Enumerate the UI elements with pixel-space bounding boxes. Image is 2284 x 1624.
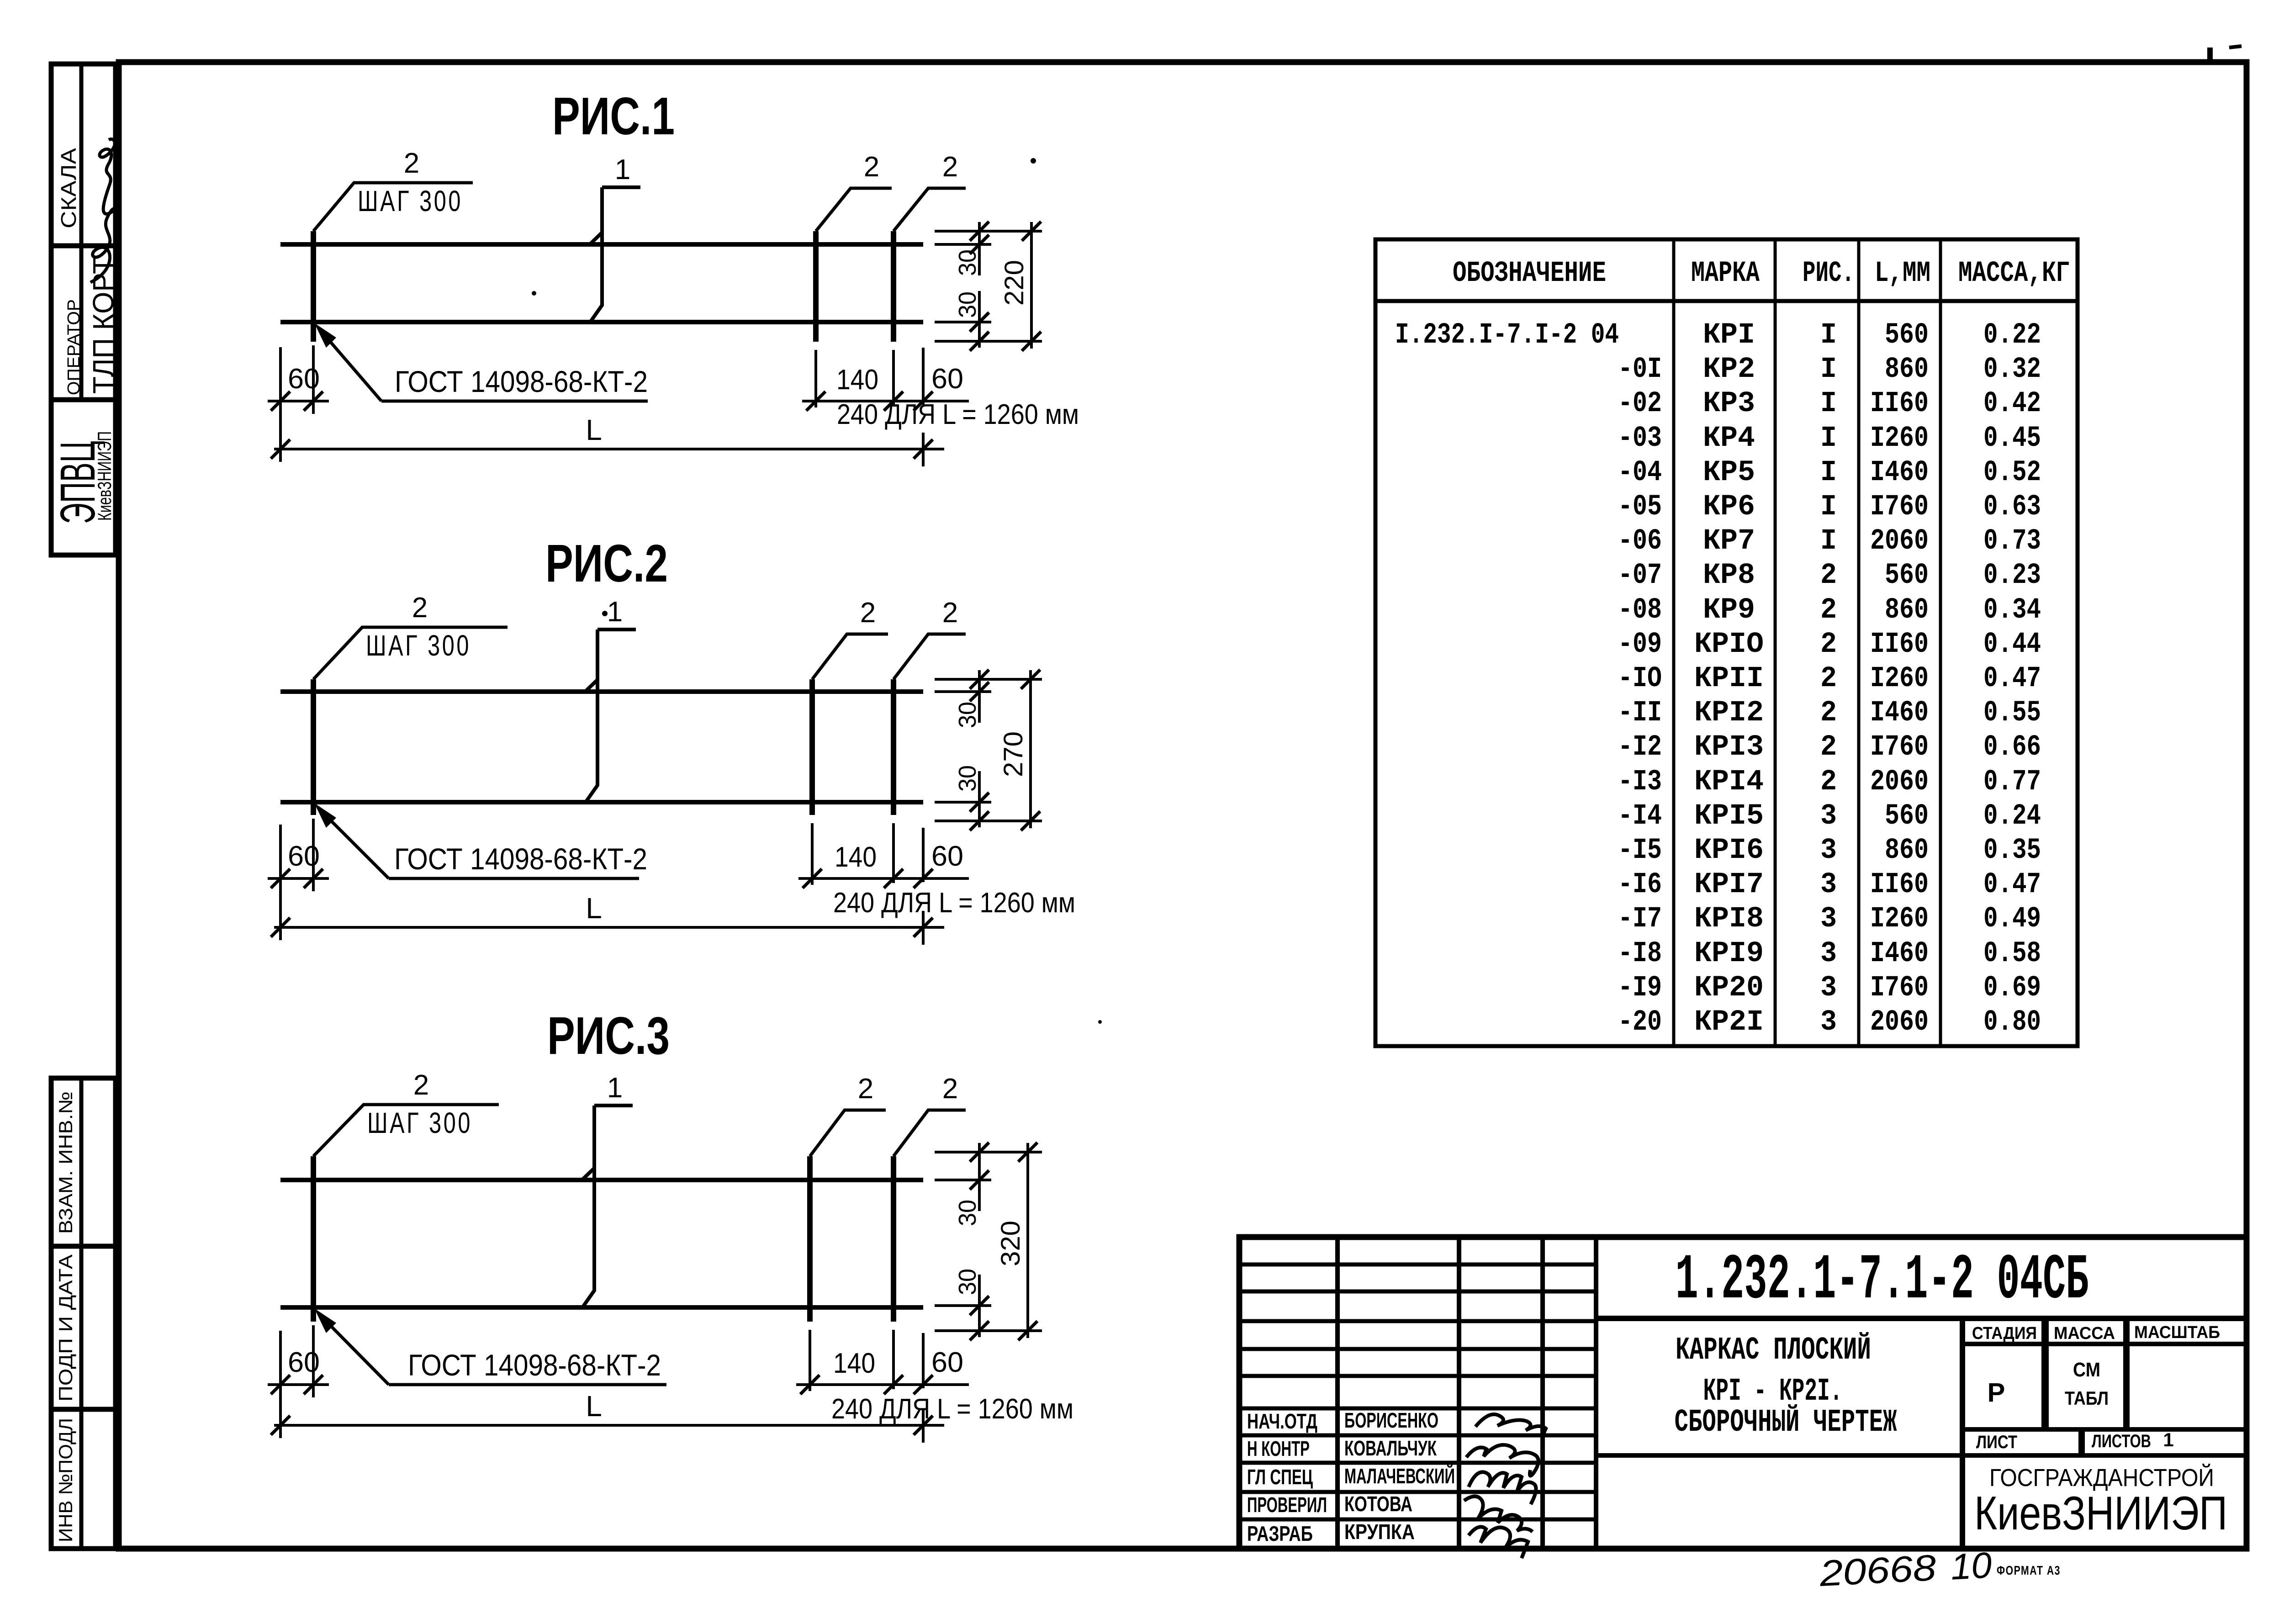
left margin box ОПЕРАТОР / ТЛП КОРТ	[51, 246, 120, 400]
svg-text:I: I	[1820, 387, 1837, 420]
РИС.1 dimension line L	[274, 448, 944, 450]
svg-text:30: 30	[954, 291, 981, 318]
svg-text:0.45: 0.45	[1983, 422, 2041, 455]
svg-text:2: 2	[1820, 628, 1837, 661]
РИС.2 leader "2" for middle-right cross bar	[812, 634, 888, 679]
svg-text:КОТОВА: КОТОВА	[1344, 1492, 1412, 1516]
svg-text:20668: 20668	[1818, 1547, 1937, 1594]
РИС.1 longitudinal bar 2 (bottom, pos.1)	[280, 320, 923, 324]
svg-text:ШАГ 300: ШАГ 300	[358, 185, 463, 217]
РИС.1 weld note ГОСТ 14098-68-КТ-2 underline	[381, 400, 648, 403]
РИС.2 cross bar pos.2 middle-right	[809, 679, 815, 815]
svg-text:-I9: -I9	[1618, 972, 1662, 1005]
svg-text:3: 3	[1820, 868, 1837, 901]
svg-text:0.73: 0.73	[1983, 525, 2041, 558]
svg-text:СМ: СМ	[2073, 1359, 2100, 1381]
svg-text:Р: Р	[1988, 1378, 2005, 1407]
sheet number tick (top right)	[2207, 48, 2213, 64]
ЛИСТ/ЛИСТОВ divider	[2078, 1429, 2085, 1455]
svg-text:2060: 2060	[1870, 525, 1929, 558]
svg-text:КР3: КР3	[1703, 387, 1755, 420]
РИС.3 right extension line B (top bar level)	[935, 1179, 991, 1181]
svg-text:СКАЛА: СКАЛА	[57, 148, 80, 228]
svg-text:I260: I260	[1870, 662, 1929, 695]
svg-text:0.52: 0.52	[1983, 456, 2041, 489]
РИС.2 extension line right (L end)	[922, 911, 925, 945]
svg-text:КР9: КР9	[1703, 594, 1755, 627]
svg-text:0.55: 0.55	[1983, 697, 2041, 730]
svg-text:0.23: 0.23	[1983, 559, 2041, 592]
РИС.1 extension line right (L end)	[922, 433, 925, 466]
РИС.2 weld callout leader with arrow	[319, 809, 389, 878]
svg-text:0.24: 0.24	[1983, 800, 2041, 833]
РИС.3 dimension line L	[274, 1424, 944, 1427]
svg-text:860: 860	[1885, 594, 1929, 627]
РИС.2 right extension line D (bar bottom level)	[935, 820, 1042, 822]
svg-text:КРI5: КРI5	[1694, 800, 1764, 833]
svg-text:-I8: -I8	[1618, 937, 1662, 970]
svg-text:-I7: -I7	[1618, 903, 1662, 936]
svg-text:0.63: 0.63	[1983, 491, 2041, 524]
СТАДИЯ/МАССА/МАСШТАБ header bottom	[1962, 1342, 2247, 1346]
left margin box ВЗАМ. ИНВ.№	[51, 1078, 116, 1246]
РИС.3 extension line right (L end)	[922, 1409, 925, 1443]
signature squiggle row 4	[1464, 1496, 1533, 1532]
signature squiggle row 1	[1475, 1414, 1546, 1437]
РИС.2 dimension line 60 (left)	[268, 877, 329, 880]
row line above ЛИСТ	[1962, 1427, 2247, 1432]
svg-text:-06: -06	[1618, 525, 1662, 558]
svg-text:60: 60	[288, 363, 320, 395]
svg-text:-IO: -IO	[1618, 662, 1662, 695]
svg-text:ФОРМАТ А3: ФОРМАТ А3	[1997, 1563, 2061, 1577]
svg-text:L: L	[586, 413, 602, 446]
table header separator	[1375, 299, 2078, 303]
svg-text:РИС.1: РИС.1	[552, 86, 675, 146]
РИС.3 leader "2" for middle-right cross bar	[810, 1110, 886, 1156]
svg-text:КиевЗНИИЭП: КиевЗНИИЭП	[94, 431, 115, 521]
svg-text:ГЛ СПЕЦ: ГЛ СПЕЦ	[1247, 1465, 1313, 1489]
РИС.2 dimension line 140 / 60 (right)	[798, 877, 969, 880]
left margin box ПОДП И ДАТА	[51, 1246, 116, 1409]
РИС.1 overall height dim line	[1030, 222, 1033, 349]
РИС.1 weld callout leader with arrow	[319, 328, 381, 401]
РИС.3 right extension line A (bar top level)	[935, 1151, 1042, 1153]
svg-text:270: 270	[999, 731, 1028, 777]
svg-text:МАЛАЧЕВСКИЙ: МАЛАЧЕВСКИЙ	[1344, 1464, 1455, 1488]
РИС.2 dimension line L	[274, 926, 944, 929]
svg-text:КР6: КР6	[1703, 491, 1755, 524]
РИС.1 cross bar pos.2 left	[311, 231, 316, 342]
svg-text:L: L	[586, 1390, 602, 1423]
РИС.3 dimension line 60 (left)	[268, 1383, 329, 1386]
svg-text:60: 60	[931, 1347, 963, 1378]
svg-text:2: 2	[942, 151, 958, 183]
РИС.2 overall height dim line	[1029, 670, 1032, 828]
svg-text:КРI8: КРI8	[1694, 903, 1764, 936]
svg-text:КР7: КР7	[1703, 525, 1755, 558]
РИС.1 cross bar pos.2 right end	[891, 231, 896, 342]
svg-text:БОРИСЕНКО: БОРИСЕНКО	[1344, 1408, 1438, 1432]
svg-text:КР20: КР20	[1694, 972, 1764, 1005]
svg-text:2: 2	[860, 597, 876, 629]
svg-text:0.66: 0.66	[1983, 731, 2041, 764]
svg-text:ГОСТ 14098-68-КТ-2: ГОСТ 14098-68-КТ-2	[408, 1348, 661, 1382]
РИС.3 dim line 30/30 (vertical)	[978, 1143, 981, 1211]
svg-text:ВЗАМ. ИНВ.№: ВЗАМ. ИНВ.№	[55, 1091, 76, 1234]
svg-text:0.34: 0.34	[1983, 594, 2041, 627]
svg-text:0.32: 0.32	[1983, 353, 2041, 386]
svg-text:560: 560	[1885, 319, 1929, 352]
svg-text:3: 3	[1820, 937, 1837, 970]
svg-text:240 ДЛЯ L = 1260 мм: 240 ДЛЯ L = 1260 мм	[833, 887, 1075, 919]
svg-text:I460: I460	[1870, 456, 1929, 489]
svg-text:I: I	[1820, 491, 1837, 524]
svg-text:КРI3: КРI3	[1694, 731, 1764, 764]
svg-text:МАРКА: МАРКА	[1691, 257, 1760, 290]
dash mark top right	[2229, 46, 2242, 48]
svg-text:РИС.: РИС.	[1803, 257, 1855, 290]
left margin box ЭПВЦ КиевЗНИИЭП	[50, 400, 116, 555]
svg-text:2: 2	[412, 592, 428, 624]
svg-text:ОПЕРАТОР: ОПЕРАТОР	[64, 299, 84, 395]
signature squiggle row 2	[1466, 1445, 1539, 1476]
signature squiggle row 3	[1469, 1472, 1536, 1504]
table column lines	[1672, 239, 1676, 1046]
svg-text:-02: -02	[1618, 387, 1662, 420]
РИС.2 right extension line B (top bar level)	[935, 690, 991, 693]
РИС.1 dim line 30/30 (vertical)	[978, 222, 981, 275]
РИС.1 extension line left (L end)	[279, 347, 282, 462]
РИС.3 longitudinal bar 1 (top, pos.1)	[280, 1178, 923, 1182]
title block small-table row lines	[1239, 1263, 1596, 1267]
РИС.2 longitudinal bar 1 (top, pos.1)	[280, 689, 923, 694]
svg-text:L: L	[586, 892, 602, 925]
svg-text:I760: I760	[1870, 731, 1929, 764]
svg-text:860: 860	[1885, 834, 1929, 867]
svg-text:ЛИСТОВ: ЛИСТОВ	[2092, 1431, 2151, 1451]
РИС.3 right extension line C (bottom bar level)	[935, 1304, 991, 1307]
РИС.2 extension lines below right cross bars	[811, 823, 814, 885]
svg-text:560: 560	[1885, 800, 1929, 833]
svg-text:2: 2	[404, 148, 419, 179]
svg-text:30: 30	[954, 1200, 981, 1226]
РИС.3 leader "2" for right end cross bar	[894, 1110, 966, 1156]
svg-text:РАЗРАБ: РАЗРАБ	[1247, 1522, 1313, 1545]
svg-text:L,ММ: L,ММ	[1875, 257, 1930, 290]
svg-text:60: 60	[288, 841, 320, 872]
title block divider right of name cell	[1960, 1318, 1965, 1549]
svg-text:МАССА: МАССА	[2054, 1324, 2115, 1343]
РИС.3 cross bar pos.2 middle-right	[807, 1156, 813, 1322]
МАССА column divider	[2123, 1318, 2130, 1429]
svg-text:2: 2	[858, 1073, 873, 1105]
specification table frame	[1375, 239, 2078, 1046]
РИС.1 leader "2" for middle-right cross bar	[816, 188, 892, 231]
svg-text:2: 2	[1820, 766, 1837, 799]
svg-text:КРI6: КРI6	[1694, 834, 1764, 867]
РИС.2 dim line 30/30 (vertical)	[978, 670, 981, 723]
svg-text:30: 30	[954, 702, 981, 728]
svg-text:I260: I260	[1870, 422, 1929, 455]
svg-text:ГОСТ 14098-68-КТ-2: ГОСТ 14098-68-КТ-2	[395, 365, 648, 398]
РИС.1 cross bar pos.2 middle-right	[813, 231, 819, 342]
svg-text:КОВАЛЬЧУК: КОВАЛЬЧУК	[1344, 1436, 1437, 1460]
signature squiggle row 5	[1469, 1527, 1528, 1558]
svg-text:0.77: 0.77	[1983, 766, 2041, 799]
svg-text:КРI9: КРI9	[1694, 937, 1764, 970]
svg-text:240 ДЛЯ L = 1260 мм: 240 ДЛЯ L = 1260 мм	[837, 399, 1079, 430]
svg-text:0.42: 0.42	[1983, 387, 2041, 420]
svg-text:60: 60	[931, 841, 963, 872]
title block small-table column lines	[1335, 1237, 1340, 1549]
РИС.3 weld callout leader with arrow	[319, 1314, 389, 1385]
svg-text:СБОРОЧНЫЙ ЧЕРТЕЖ: СБОРОЧНЫЙ ЧЕРТЕЖ	[1675, 1404, 1897, 1441]
svg-text:ТЛП КОРТ: ТЛП КОРТ	[87, 257, 120, 394]
title block doc number cell separator	[1596, 1316, 2247, 1321]
svg-text:КР2I: КР2I	[1694, 1006, 1764, 1039]
РИС.1 right extension line D (bar bottom level)	[935, 340, 1042, 343]
svg-text:КР2: КР2	[1703, 353, 1755, 386]
svg-text:КАРКАС ПЛОСКИЙ: КАРКАС ПЛОСКИЙ	[1676, 1332, 1871, 1369]
svg-text:ИНВ №ПОДЛ: ИНВ №ПОДЛ	[55, 1418, 76, 1542]
РИС.3 extension lines below right cross bars	[809, 1330, 811, 1391]
РИС.3 cross bar pos.2 right end	[891, 1156, 896, 1322]
РИС.1 longitudinal bar 1 (top, pos.1)	[280, 242, 923, 247]
svg-text:1: 1	[607, 596, 623, 628]
svg-text:320: 320	[996, 1221, 1026, 1266]
svg-text:-I5: -I5	[1618, 834, 1662, 867]
svg-text:2060: 2060	[1870, 1006, 1929, 1039]
svg-text:-04: -04	[1618, 456, 1662, 489]
svg-text:ТАБЛ: ТАБЛ	[2065, 1387, 2109, 1409]
svg-text:30: 30	[954, 249, 981, 276]
РИС.3 cross bar pos.2 left	[311, 1156, 316, 1322]
svg-text:2: 2	[1820, 594, 1837, 627]
svg-text:3: 3	[1820, 903, 1837, 936]
svg-text:3: 3	[1820, 972, 1837, 1005]
РИС.2 extension line below left cross bar	[312, 819, 315, 891]
svg-text:II60: II60	[1870, 868, 1929, 901]
svg-text:2: 2	[942, 597, 958, 629]
svg-text:140: 140	[835, 841, 877, 873]
svg-text:-20: -20	[1618, 1006, 1662, 1039]
svg-text:860: 860	[1885, 353, 1929, 386]
svg-text:0.47: 0.47	[1983, 868, 2041, 901]
svg-text:I260: I260	[1870, 903, 1929, 936]
svg-text:0.58: 0.58	[1983, 937, 2041, 970]
scan speckles	[532, 291, 536, 296]
svg-text:II60: II60	[1870, 628, 1929, 661]
svg-text:КР8: КР8	[1703, 559, 1755, 592]
СТАДИЯ column divider	[2041, 1318, 2049, 1429]
svg-text:КРУПКА: КРУПКА	[1344, 1520, 1415, 1544]
svg-text:-I2: -I2	[1618, 731, 1662, 764]
svg-text:0.49: 0.49	[1983, 903, 2041, 936]
РИС.3 extension line left (L end)	[279, 1331, 282, 1438]
svg-text:-II: -II	[1618, 697, 1662, 730]
svg-text:0.47: 0.47	[1983, 662, 2041, 695]
svg-text:3: 3	[1820, 1006, 1837, 1039]
svg-text:240 ДЛЯ L = 1260 мм: 240 ДЛЯ L = 1260 мм	[831, 1393, 1073, 1425]
РИС.3 longitudinal bar 2 (bottom, pos.1)	[280, 1305, 923, 1310]
РИС.1 right extension line A (bar top level)	[935, 230, 1042, 233]
svg-text:1: 1	[607, 1072, 623, 1104]
svg-text:10: 10	[1950, 1545, 1993, 1587]
row line below ЛИСТ / КАРКАС cell bottom	[1596, 1453, 2247, 1458]
svg-text:I.232.I-7.I-2 04: I.232.I-7.I-2 04	[1395, 319, 1619, 352]
svg-text:2060: 2060	[1870, 766, 1929, 799]
left margin box СКАЛА with signature	[51, 64, 116, 282]
svg-text:3: 3	[1820, 834, 1837, 867]
svg-text:КРIО: КРIО	[1694, 628, 1764, 661]
svg-text:II60: II60	[1870, 387, 1929, 420]
РИС.3 weld note ГОСТ 14098-68-КТ-2 underline	[389, 1383, 666, 1386]
svg-text:2: 2	[413, 1069, 429, 1101]
svg-text:КиевЗНИИЭП: КиевЗНИИЭП	[1974, 1487, 2227, 1540]
РИС.3 dimension line 140 / 60 (right)	[796, 1383, 969, 1386]
svg-text:ПРОВЕРИЛ: ПРОВЕРИЛ	[1247, 1493, 1327, 1517]
svg-text:ШАГ 300: ШАГ 300	[367, 1106, 472, 1139]
title block outer frame	[1239, 1237, 2247, 1549]
svg-text:I: I	[1820, 353, 1837, 386]
svg-text:0.22: 0.22	[1983, 319, 2041, 352]
svg-text:МАСШТАБ: МАСШТАБ	[2134, 1323, 2220, 1342]
svg-text:2: 2	[1820, 731, 1837, 764]
РИС.1 leader pos.2 with note ШАГ 300	[313, 183, 473, 231]
svg-text:I460: I460	[1870, 937, 1929, 970]
svg-text:-07: -07	[1618, 559, 1662, 592]
svg-text:-I4: -I4	[1618, 800, 1662, 833]
svg-text:220: 220	[999, 260, 1029, 306]
РИС.1 leader "2" for right end cross bar	[894, 188, 966, 231]
svg-text:НАЧ.ОТД: НАЧ.ОТД	[1247, 1409, 1317, 1433]
svg-text:140: 140	[836, 364, 878, 396]
РИС.2 extension line left (L end)	[279, 825, 282, 940]
svg-text:30: 30	[954, 1269, 981, 1295]
svg-text:I460: I460	[1870, 697, 1929, 730]
svg-text:КР5: КР5	[1703, 456, 1755, 489]
svg-text:140: 140	[833, 1348, 875, 1379]
РИС.3 extension line below left cross bar	[312, 1325, 315, 1397]
svg-text:КРI2: КРI2	[1694, 697, 1764, 730]
РИС.3 overall height dim line	[1026, 1143, 1029, 1338]
РИС.1 right extension line B (top bar level)	[935, 243, 991, 246]
svg-text:КРI7: КРI7	[1694, 868, 1764, 901]
РИС.1 leader line pos.1 with break mark	[590, 187, 640, 322]
РИС.2 weld note ГОСТ 14098-68-КТ-2 underline	[389, 877, 639, 880]
svg-text:I: I	[1820, 422, 1837, 455]
svg-text:2: 2	[942, 1073, 958, 1105]
svg-text:2: 2	[864, 151, 879, 183]
svg-text:3: 3	[1820, 800, 1837, 833]
svg-text:РИС.2: РИС.2	[545, 534, 668, 593]
svg-text:I760: I760	[1870, 491, 1929, 524]
svg-text:КРI4: КРI4	[1694, 766, 1764, 799]
svg-text:60: 60	[931, 363, 963, 395]
svg-text:РИС.3: РИС.3	[547, 1006, 670, 1065]
РИС.2 cross bar pos.2 right end	[891, 679, 896, 815]
svg-text:0.69: 0.69	[1983, 972, 2041, 1005]
РИС.1 extension line below left cross bar	[312, 345, 315, 414]
svg-text:I: I	[1820, 525, 1837, 558]
svg-text:ЛИСТ: ЛИСТ	[1976, 1432, 2017, 1452]
svg-text:I: I	[1820, 456, 1837, 489]
РИС.2 longitudinal bar 2 (bottom, pos.1)	[280, 800, 923, 804]
svg-text:СТАДИЯ: СТАДИЯ	[1972, 1324, 2037, 1343]
РИС.3 leader pos.2 with note ШАГ 300	[313, 1105, 499, 1156]
svg-text:60: 60	[288, 1347, 320, 1378]
РИС.1 dimension line 60 (left)	[268, 400, 329, 402]
svg-text:0.35: 0.35	[1983, 834, 2041, 867]
РИС.2 leader line pos.1 with break mark	[585, 629, 636, 802]
svg-text:-0I: -0I	[1618, 353, 1662, 386]
svg-text:-08: -08	[1618, 594, 1662, 627]
svg-text:ПОДП И ДАТА: ПОДП И ДАТА	[55, 1254, 76, 1402]
РИС.2 leader pos.2 with note ШАГ 300	[313, 627, 508, 679]
svg-text:2: 2	[1820, 662, 1837, 695]
svg-text:-03: -03	[1618, 422, 1662, 455]
РИС.1 dimension line 140 / 60 (right)	[802, 400, 969, 402]
svg-text:560: 560	[1885, 559, 1929, 592]
svg-text:КРII: КРII	[1694, 662, 1764, 695]
svg-text:1.232.1-7.1-2 04СБ: 1.232.1-7.1-2 04СБ	[1676, 1244, 2089, 1317]
svg-text:ШАГ 300: ШАГ 300	[366, 629, 471, 662]
svg-text:30: 30	[954, 765, 981, 792]
РИС.2 leader "2" for right end cross bar	[894, 634, 966, 679]
svg-text:2: 2	[1820, 559, 1837, 592]
svg-text:-I6: -I6	[1618, 868, 1662, 901]
svg-text:ОБОЗНАЧЕНИЕ: ОБОЗНАЧЕНИЕ	[1453, 257, 1606, 290]
svg-text:Н КОНТР: Н КОНТР	[1247, 1437, 1310, 1460]
svg-text:I760: I760	[1870, 972, 1929, 1005]
svg-text:I: I	[1820, 319, 1837, 352]
svg-text:КР4: КР4	[1703, 422, 1755, 455]
РИС.1 right extension line C (bottom bar level)	[935, 321, 991, 323]
svg-text:2: 2	[1820, 697, 1837, 730]
РИС.3 leader line pos.1 with break mark	[582, 1106, 633, 1307]
svg-text:-09: -09	[1618, 628, 1662, 661]
РИС.2 right extension line A (bar top level)	[935, 678, 1042, 681]
svg-text:0.44: 0.44	[1983, 628, 2041, 661]
РИС.1 extension lines below right cross bars	[814, 350, 817, 407]
svg-text:КРI: КРI	[1703, 319, 1755, 352]
РИС.2 cross bar pos.2 left	[311, 679, 316, 815]
svg-text:-05: -05	[1618, 491, 1662, 524]
РИС.2 right extension line C (bottom bar level)	[935, 801, 991, 804]
РИС.3 right extension line D (bar bottom level)	[935, 1329, 1042, 1332]
svg-text:-I3: -I3	[1618, 766, 1662, 799]
svg-text:0.80: 0.80	[1983, 1006, 2041, 1039]
svg-text:1: 1	[615, 154, 630, 185]
left margin box ИНВ №ПОДЛ	[51, 1409, 116, 1549]
svg-text:ГОСТ 14098-68-КТ-2: ГОСТ 14098-68-КТ-2	[394, 842, 647, 876]
svg-text:1: 1	[2163, 1429, 2173, 1450]
svg-text:МАССА,КГ: МАССА,КГ	[1958, 257, 2070, 290]
